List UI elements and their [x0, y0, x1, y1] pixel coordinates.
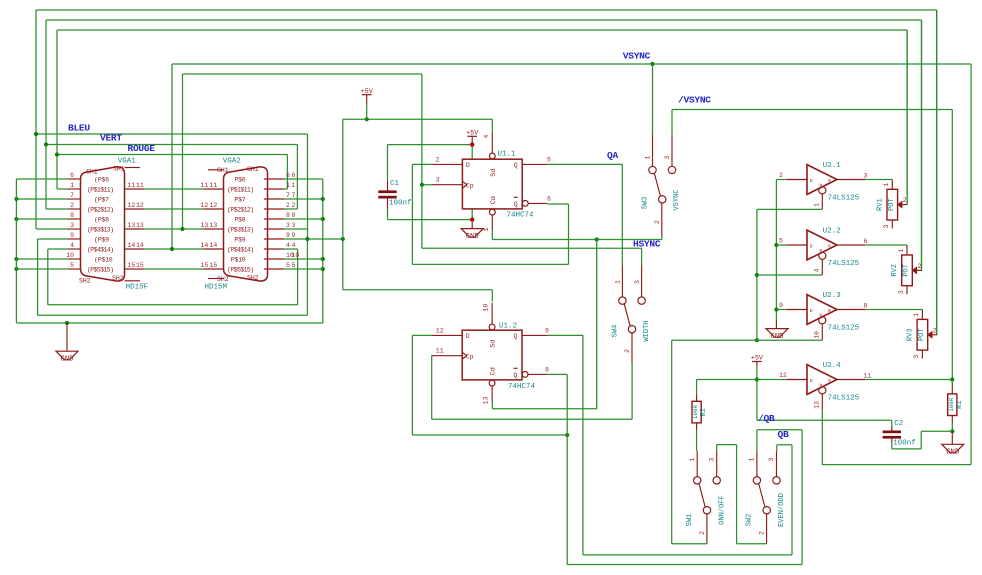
- svg-text:D: D: [466, 162, 470, 169]
- svg-text:1: 1: [70, 182, 74, 189]
- svg-text:11: 11: [436, 348, 444, 355]
- svg-text:D: D: [810, 378, 813, 384]
- svg-text:SH1: SH1: [86, 169, 98, 176]
- svg-text:SH2: SH2: [79, 278, 91, 285]
- svg-text:HSYNC: HSYNC: [633, 238, 661, 249]
- svg-text:SH2: SH2: [112, 275, 124, 282]
- svg-text:U2.4: U2.4: [823, 362, 842, 370]
- svg-text:14: 14: [136, 242, 144, 249]
- svg-text:2: 2: [436, 156, 440, 163]
- svg-text:Cp: Cp: [466, 183, 474, 190]
- svg-text:100nf: 100nf: [389, 200, 412, 208]
- svg-text:GND: GND: [61, 356, 74, 364]
- svg-text:U2.3: U2.3: [823, 292, 842, 300]
- svg-text:3: 3: [664, 155, 671, 159]
- svg-text:11: 11: [201, 182, 209, 189]
- svg-text:P$6: P$6: [234, 177, 245, 184]
- svg-text:74HC74: 74HC74: [507, 212, 535, 220]
- svg-text:VGA1: VGA1: [118, 158, 137, 166]
- svg-text:5: 5: [779, 238, 783, 245]
- svg-text:15: 15: [136, 262, 144, 269]
- svg-text:(P$2$12): (P$2$12): [227, 207, 253, 214]
- svg-text:Q: Q: [514, 333, 518, 340]
- svg-text:POT: POT: [888, 198, 896, 211]
- svg-text:3: 3: [864, 172, 868, 179]
- svg-text:4: 4: [70, 242, 74, 249]
- svg-text:9: 9: [779, 302, 783, 309]
- svg-text:RV2: RV2: [891, 264, 899, 277]
- svg-text:D: D: [810, 178, 813, 184]
- svg-text:8: 8: [70, 212, 74, 219]
- svg-text:P$10: P$10: [231, 257, 246, 264]
- svg-text:3: 3: [883, 224, 890, 228]
- svg-text:SW1: SW1: [686, 514, 694, 527]
- svg-text:(P$9: (P$9: [94, 237, 109, 244]
- svg-text:Cd: Cd: [490, 196, 498, 204]
- svg-text:VERT: VERT: [100, 133, 122, 144]
- svg-text:SW4: SW4: [612, 325, 620, 338]
- svg-text:D: D: [810, 308, 813, 314]
- svg-text:3: 3: [634, 280, 641, 284]
- svg-text:3: 3: [286, 222, 290, 229]
- svg-text:74HC74: 74HC74: [508, 383, 536, 391]
- svg-text:10: 10: [483, 304, 490, 312]
- svg-text:QA: QA: [607, 150, 618, 161]
- svg-text:14: 14: [201, 242, 209, 249]
- svg-text:U1.1: U1.1: [498, 150, 517, 158]
- svg-text:11: 11: [128, 182, 136, 189]
- svg-text:RV1: RV1: [877, 198, 885, 211]
- svg-text:EVEN/ODD: EVEN/ODD: [778, 493, 786, 527]
- svg-text:R2: R2: [700, 408, 708, 416]
- svg-text:2: 2: [759, 531, 766, 535]
- svg-text:Sd: Sd: [490, 340, 498, 348]
- svg-text:11: 11: [136, 182, 144, 189]
- svg-text:SH1: SH1: [113, 166, 125, 173]
- svg-text:7: 7: [70, 192, 74, 199]
- svg-text:13: 13: [201, 222, 209, 229]
- svg-text:12: 12: [436, 327, 444, 334]
- svg-text:(P$4$14): (P$4$14): [87, 247, 113, 254]
- svg-text:6: 6: [70, 172, 74, 179]
- svg-text:(P$1$11): (P$1$11): [227, 187, 253, 194]
- svg-text:(P$3$13): (P$3$13): [87, 227, 113, 234]
- svg-text:5: 5: [286, 262, 290, 269]
- svg-text:VSYNC: VSYNC: [623, 51, 651, 62]
- svg-text:13: 13: [483, 396, 490, 404]
- svg-text:12: 12: [201, 202, 209, 209]
- svg-text:POT: POT: [903, 264, 911, 277]
- svg-text:15: 15: [210, 262, 218, 269]
- svg-text:QB: QB: [778, 429, 789, 440]
- svg-text:13: 13: [210, 222, 218, 229]
- svg-text:100R: 100R: [692, 405, 699, 419]
- svg-text:R1: R1: [956, 400, 964, 408]
- svg-text:1: 1: [645, 155, 652, 159]
- svg-text:(P$4$14): (P$4$14): [227, 247, 253, 254]
- svg-text:U2.2: U2.2: [823, 227, 841, 235]
- svg-text:POT: POT: [918, 328, 926, 341]
- svg-text:15: 15: [128, 262, 136, 269]
- svg-text:9: 9: [286, 232, 290, 239]
- svg-text:2: 2: [292, 202, 296, 209]
- svg-text:5: 5: [547, 156, 551, 163]
- svg-text:P$9: P$9: [234, 237, 245, 244]
- svg-text:14: 14: [210, 242, 218, 249]
- svg-text:13: 13: [813, 401, 820, 409]
- svg-text:VSYNC: VSYNC: [673, 189, 681, 210]
- svg-text:3: 3: [913, 355, 920, 359]
- svg-text:8: 8: [292, 212, 296, 219]
- svg-text:12: 12: [128, 202, 136, 209]
- svg-text:2: 2: [70, 202, 74, 209]
- svg-text:D: D: [466, 333, 470, 340]
- svg-text:1: 1: [898, 248, 905, 252]
- svg-text:SH2: SH2: [247, 275, 259, 282]
- svg-text:(P$1$11): (P$1$11): [87, 187, 113, 194]
- svg-text:RV3: RV3: [907, 328, 915, 341]
- svg-text:(P$3$13): (P$3$13): [227, 227, 253, 234]
- svg-text:10: 10: [292, 252, 300, 259]
- svg-text:74LS125: 74LS125: [828, 395, 860, 403]
- svg-text:74LS125: 74LS125: [828, 325, 860, 333]
- svg-text:SW2: SW2: [746, 514, 754, 527]
- svg-text:2: 2: [654, 220, 661, 224]
- svg-text:3: 3: [292, 222, 296, 229]
- svg-text:1: 1: [913, 313, 920, 317]
- svg-text:74LS125: 74LS125: [828, 260, 860, 268]
- svg-text:2: 2: [779, 172, 783, 179]
- svg-text:100nf: 100nf: [893, 440, 916, 448]
- svg-text:100R: 100R: [948, 397, 955, 411]
- svg-text:Q: Q: [514, 201, 518, 208]
- svg-text:4: 4: [286, 242, 290, 249]
- svg-text:Cp: Cp: [466, 354, 474, 361]
- svg-text:1: 1: [615, 280, 622, 284]
- svg-text:13: 13: [128, 222, 136, 229]
- svg-text:(P$5$15): (P$5$15): [227, 267, 253, 274]
- svg-text:BLEU: BLEU: [68, 123, 90, 134]
- svg-text:12: 12: [210, 202, 218, 209]
- svg-text:2: 2: [624, 349, 631, 353]
- svg-text:D: D: [810, 243, 813, 249]
- svg-text:C1: C1: [390, 180, 400, 188]
- svg-text:WIDTH: WIDTH: [643, 320, 651, 341]
- svg-text:6: 6: [864, 238, 868, 245]
- svg-text:0: 0: [828, 244, 831, 250]
- svg-text:C2: C2: [894, 420, 903, 428]
- svg-text:P$7: P$7: [234, 197, 245, 204]
- svg-text:2: 2: [933, 327, 937, 334]
- svg-text:8: 8: [864, 302, 868, 309]
- svg-text:SH1: SH1: [247, 166, 259, 173]
- svg-text:3: 3: [709, 457, 716, 461]
- svg-text:(P$2$12): (P$2$12): [87, 207, 113, 214]
- svg-text:(P$10: (P$10: [94, 257, 113, 264]
- svg-text:1: 1: [813, 203, 820, 207]
- svg-text:11: 11: [864, 372, 872, 379]
- svg-text:/VSYNC: /VSYNC: [678, 95, 711, 106]
- svg-text:P$8: P$8: [234, 217, 245, 224]
- svg-text:2: 2: [918, 263, 922, 270]
- svg-text:4: 4: [483, 135, 490, 139]
- svg-text:6: 6: [286, 172, 290, 179]
- svg-text:10: 10: [813, 331, 820, 339]
- svg-text:1: 1: [689, 457, 696, 461]
- svg-text:3: 3: [898, 290, 905, 294]
- svg-text:12: 12: [779, 372, 787, 379]
- svg-text:3: 3: [436, 177, 440, 184]
- svg-text:GND: GND: [946, 449, 959, 457]
- svg-text:8: 8: [545, 366, 549, 373]
- svg-text:7: 7: [286, 192, 290, 199]
- svg-text:Q: Q: [514, 372, 518, 379]
- svg-text:9: 9: [292, 232, 296, 239]
- svg-text:SW3: SW3: [642, 197, 650, 210]
- svg-text:/QB: /QB: [758, 413, 775, 424]
- svg-text:1: 1: [749, 457, 756, 461]
- svg-text:(P$6: (P$6: [94, 177, 109, 184]
- svg-text:2: 2: [286, 202, 290, 209]
- svg-text:3: 3: [768, 457, 775, 461]
- svg-text:ROUGE: ROUGE: [128, 143, 156, 154]
- svg-text:Q: Q: [514, 162, 518, 169]
- svg-text:HD15F: HD15F: [126, 284, 149, 292]
- svg-text:4: 4: [813, 268, 820, 272]
- svg-text:12: 12: [136, 202, 144, 209]
- svg-text:SH2: SH2: [217, 276, 229, 283]
- svg-text:5: 5: [292, 262, 296, 269]
- svg-text:2: 2: [699, 531, 706, 535]
- svg-text:GND: GND: [771, 333, 784, 341]
- svg-text:8: 8: [286, 212, 290, 219]
- svg-text:(P$7: (P$7: [94, 197, 109, 204]
- svg-text:5: 5: [70, 262, 74, 269]
- svg-text:HD15M: HD15M: [205, 284, 228, 292]
- svg-text:6: 6: [292, 172, 296, 179]
- svg-text:1: 1: [883, 183, 890, 187]
- svg-text:10: 10: [66, 252, 74, 259]
- svg-text:ONN/OFF: ONN/OFF: [719, 495, 727, 524]
- svg-text:0: 0: [828, 178, 831, 184]
- svg-text:1: 1: [286, 182, 290, 189]
- svg-text:(P$5$15): (P$5$15): [87, 267, 113, 274]
- svg-text:U1.2: U1.2: [499, 323, 517, 331]
- svg-text:1: 1: [292, 182, 296, 189]
- svg-text:3: 3: [70, 222, 74, 229]
- svg-text:(P$8: (P$8: [94, 217, 109, 224]
- svg-text:6: 6: [547, 195, 551, 202]
- svg-text:2: 2: [903, 197, 907, 204]
- svg-text:0: 0: [828, 308, 831, 314]
- svg-text:7: 7: [292, 192, 296, 199]
- svg-text:0: 0: [828, 378, 831, 384]
- svg-text:4: 4: [292, 242, 296, 249]
- svg-text:U2.1: U2.1: [823, 162, 842, 170]
- svg-text:SH1: SH1: [217, 167, 229, 174]
- svg-text:15: 15: [201, 262, 209, 269]
- svg-text:9: 9: [70, 232, 74, 239]
- svg-text:9: 9: [545, 327, 549, 334]
- svg-text:1: 1: [483, 227, 490, 231]
- svg-text:GND: GND: [466, 233, 479, 241]
- svg-text:Sd: Sd: [490, 169, 498, 177]
- svg-text:VGA2: VGA2: [223, 158, 241, 166]
- svg-text:Cd: Cd: [490, 367, 498, 375]
- svg-text:11: 11: [210, 182, 218, 189]
- svg-text:74LS125: 74LS125: [828, 195, 860, 203]
- svg-text:13: 13: [136, 222, 144, 229]
- svg-text:14: 14: [128, 242, 136, 249]
